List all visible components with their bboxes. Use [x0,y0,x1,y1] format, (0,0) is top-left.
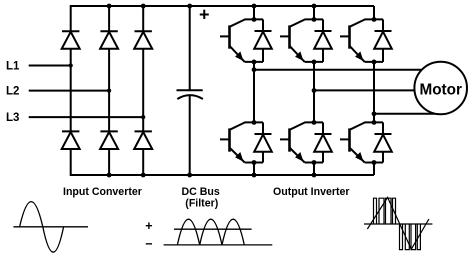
wire: leg B lower cell bottom link [305,162,323,164]
wire: leg C lower cell bottom link [365,162,383,164]
svg-text:+: + [145,219,152,233]
wire: leg A lower cell bottom link [245,162,263,164]
wire: leg C bottom bus drop [373,163,375,176]
wire: rectifier column 1 upper segment [70,5,72,31]
wire: freewheel diode D8 top lead [322,19,324,31]
transistor Q6 (lower IGBT leg C) [340,122,365,162]
svg-text:Output Inverter: Output Inverter [273,186,350,198]
waveform: rectified ripple humps [177,219,244,245]
wire: leg C midpoint vertical [373,62,375,123]
node: L2 junction dot [107,89,111,93]
svg-text:L1: L1 [6,61,20,73]
node: leg A lower collector junction dot [252,120,257,125]
svg-text:L2: L2 [6,86,19,98]
wire: freewheel diode D12 bottom lead [382,152,384,163]
svg-text:L3: L3 [6,112,19,124]
wire: rectifier column 1 middle segment [70,49,72,132]
wire: phase C line to motor [374,113,438,115]
wire: freewheel diode D7 bottom lead [262,49,264,62]
wire: DC bus capacitor bottom lead [189,96,191,176]
wire: phase B line to motor [314,89,417,91]
wire: freewheel diode D12 top lead [382,122,384,134]
wire: rectifier column 3 upper segment [142,6,144,31]
diode D10 (lower freewheel) [254,134,272,152]
wire: leg A upper cell bottom link [245,61,263,63]
wire: leg B midpoint vertical [313,62,315,123]
transistor Q3 (upper IGBT leg C) [340,19,365,62]
svg-text:Input Converter: Input Converter [63,186,142,198]
waveform: input sine axis [13,226,88,228]
wire: leg B upper cell bottom link [305,61,323,63]
wire: rectifier column 2 middle segment [108,49,110,132]
transistor Q4 (lower IGBT leg A) [220,122,245,162]
node: phase A output tap dot [252,67,257,72]
waveform: input sine wave [20,202,64,253]
wire: negative DC bottom bus [71,174,374,176]
wire: leg A midpoint vertical [253,62,255,123]
node: L3 junction dot [141,115,145,119]
wire: rectifier column 3 middle segment [142,49,144,132]
wire: leg B top bus drop [313,6,315,19]
wire: rectifier column 2 lower segment [108,149,110,175]
wire: leg B upper cell top link [305,18,324,20]
diode D11 (lower freewheel) [314,134,332,152]
waveform: DC bus zero line [164,244,273,246]
wire: line L3 lead [29,116,144,118]
node: phase B output tap dot [312,88,317,93]
wire: DC bus capacitor top lead [189,6,191,90]
wire: freewheel diode D8 bottom lead [322,49,324,62]
node: leg C lower collector junction dot [372,120,377,125]
waveform: PWM negative pulses [400,224,421,250]
diode D8 (upper freewheel) [314,31,332,49]
transistor Q5 (lower IGBT leg B) [280,122,305,162]
wire: leg C top bus drop [373,6,375,19]
wire: freewheel diode D7 top lead [262,19,264,31]
wire: leg B lower cell top link [305,121,324,123]
wire: freewheel diode D11 bottom lead [322,152,324,163]
diode D1 [62,31,80,49]
waveform: PWM positive pulses [374,198,396,224]
node: leg A upper emitter junction dot [252,60,257,65]
diode D6 [134,131,152,149]
wire: freewheel diode D10 bottom lead [262,152,264,163]
wire: rectifier column 2 upper segment [108,6,110,31]
node: leg C upper emitter junction dot [372,60,377,65]
node: leg C upper collector junction dot [372,17,377,22]
wire: line L2 lead [29,90,109,92]
wire: leg B bottom bus drop [313,163,315,176]
node: leg B upper collector junction dot [312,17,317,22]
wire: line L1 lead [29,65,71,67]
wire: positive DC top bus [71,5,374,7]
wire: leg A lower cell top link [245,121,264,123]
svg-text:+: + [199,4,210,24]
wire: phase A line to motor [254,69,424,71]
transistor Q2 (upper IGBT leg B) [280,19,305,62]
node: leg B lower collector junction dot [312,120,317,125]
node: L1 junction dot [69,63,73,67]
wire: leg C lower cell top link [365,121,384,123]
svg-text:(Filter): (Filter) [185,198,218,210]
diode D12 (lower freewheel) [374,134,392,152]
diode D9 (upper freewheel) [374,31,392,49]
wire: freewheel diode D11 top lead [322,122,324,134]
node: leg C lower emitter junction dot [372,160,377,165]
node: top bus junction dots [107,4,317,9]
wire: leg A bottom bus drop [253,163,255,176]
svg-text:−: − [145,237,152,251]
svg-text:Motor: Motor [419,81,462,98]
node: leg B upper emitter junction dot [312,60,317,65]
diode D5 [100,131,118,149]
diode D4 [62,131,80,149]
wire: freewheel diode D9 bottom lead [382,49,384,62]
node: bottom bus junction dots [107,173,317,178]
wire: leg C upper cell bottom link [365,61,383,63]
wire: freewheel diode D9 top lead [382,19,384,31]
node: phase C output tap dot [372,111,377,116]
wire: rectifier column 1 lower segment [70,149,72,176]
node: leg A upper collector junction dot [252,17,257,22]
wire: leg A top bus drop [253,6,255,19]
transistor Q1 (upper IGBT leg A) [220,19,245,62]
waveform: PWM output axis [364,223,432,225]
wire: leg A upper cell top link [245,18,264,20]
motor M1 circle [414,62,467,115]
capacitor C1 [177,90,203,99]
diode D3 [134,31,152,49]
diode D2 [100,31,118,49]
wire: leg C upper cell top link [365,18,384,20]
waveform: DC bus level line [174,228,252,230]
node: leg B lower emitter junction dot [312,160,317,165]
wire: freewheel diode D10 top lead [262,122,264,134]
node: leg A lower emitter junction dot [252,160,257,165]
waveform: PWM fundamental sine [367,197,429,249]
diode D7 (upper freewheel) [254,31,272,49]
wire: rectifier column 3 lower segment [142,149,144,175]
svg-text:DC Bus: DC Bus [182,186,220,198]
